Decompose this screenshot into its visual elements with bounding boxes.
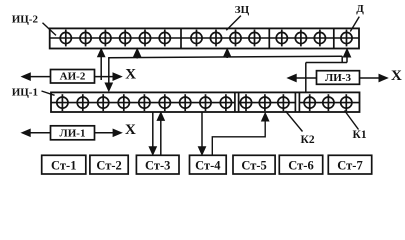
track section box ИЦ-1 bbox=[51, 92, 360, 112]
wheel sensor top section1 #3 bbox=[100, 30, 111, 47]
svg-text:Ст-4: Ст-4 bbox=[195, 158, 221, 172]
divider joint top box 3 bbox=[333, 28, 335, 48]
wire ЛИ-1 right output to X bbox=[95, 132, 114, 134]
wheel sensor middle segA #1 bbox=[57, 94, 68, 111]
leader line К1 bbox=[345, 111, 359, 130]
rail center line middle box segA bbox=[51, 102, 235, 104]
arrowhead up into top box x101 bbox=[98, 49, 105, 57]
wheel sensor middle segB #1 bbox=[240, 94, 251, 111]
wheel sensor top section2 #3 bbox=[230, 30, 241, 47]
wheel sensor middle segA #3 bbox=[98, 94, 109, 111]
station block Ст-1 bbox=[42, 155, 86, 174]
wire vertical up into top box at x137 bbox=[136, 56, 138, 59]
wheel sensor middle segA #7 bbox=[180, 94, 191, 111]
rail center line middle box segC bbox=[299, 102, 359, 104]
block ЛИ-1 bbox=[51, 126, 95, 140]
arrowhead ЛИ-1 right X bbox=[113, 129, 122, 136]
wheel sensor middle segC #2 bbox=[323, 94, 334, 111]
block АИ-2 bbox=[51, 70, 95, 84]
arrowhead ЛИ-3 left bbox=[288, 74, 297, 81]
divider joint top box 2 bbox=[268, 28, 270, 48]
wheel sensor top section3 #3 bbox=[314, 30, 325, 47]
svg-text:Ст-2: Ст-2 bbox=[96, 158, 121, 172]
double insulated joint middle box right pair bbox=[295, 92, 299, 112]
wheel sensor top section1 #1 bbox=[60, 30, 71, 47]
svg-text:ИЦ-2: ИЦ-2 bbox=[12, 14, 39, 26]
svg-text:К1: К1 bbox=[353, 129, 367, 141]
svg-text:Ст-5: Ст-5 bbox=[241, 158, 266, 172]
svg-text:X: X bbox=[125, 66, 136, 82]
station block Ст-6 bbox=[279, 155, 322, 174]
label X near ЛИ-1 bbox=[125, 122, 136, 138]
label ЗЦ bbox=[235, 4, 250, 16]
svg-text:Ст-1: Ст-1 bbox=[51, 158, 76, 172]
wire ЛИ-3 right output to X bbox=[360, 77, 380, 79]
wheel sensor middle segB #2 bbox=[259, 94, 270, 111]
wire vertical jog at x342 bbox=[341, 56, 343, 62]
wire vertical down into middle box at x109 bbox=[108, 58, 110, 83]
svg-text:ЛИ-3: ЛИ-3 bbox=[325, 72, 351, 84]
wheel sensor middle segB #3 bbox=[278, 94, 289, 111]
wheel sensor middle segA #5 bbox=[139, 94, 150, 111]
wire vertical up into top box at x227 bbox=[226, 55, 228, 58]
wheel sensor middle segA #4 bbox=[118, 94, 129, 111]
svg-text:К2: К2 bbox=[301, 134, 315, 146]
station block Ст-4 bbox=[190, 155, 227, 174]
wheel sensor top section4 (Д) #1 bbox=[341, 30, 352, 47]
wheel sensor top section1 #2 bbox=[80, 30, 91, 47]
wheel sensor middle segC #1 bbox=[304, 94, 315, 111]
svg-text:ИЦ-1: ИЦ-1 bbox=[12, 86, 38, 98]
arrowhead ЛИ-1 left bbox=[22, 129, 31, 136]
arrowhead up into middle box from Ст-3 bbox=[157, 112, 164, 120]
svg-text:Д: Д bbox=[356, 3, 364, 15]
svg-text:Ст-3: Ст-3 bbox=[145, 158, 170, 172]
svg-text:Ст-6: Ст-6 bbox=[288, 158, 313, 172]
rail center line middle box segB bbox=[239, 102, 296, 104]
station block Ст-5 bbox=[233, 155, 275, 174]
wheel sensor top section1 #4 bbox=[120, 30, 131, 47]
wheel sensor top section3 #1 bbox=[276, 30, 287, 47]
arrowhead down into middle box x109 bbox=[105, 83, 112, 91]
wheel sensor top section2 #1 bbox=[191, 30, 202, 47]
wire vertical into top box at x101 bbox=[100, 57, 102, 81]
wheel sensor top section2 #2 bbox=[210, 30, 221, 47]
svg-text:Ст-7: Ст-7 bbox=[337, 158, 362, 172]
svg-text:АИ-2: АИ-2 bbox=[60, 71, 86, 83]
wire up from Ст-3 to middle box bbox=[160, 120, 162, 156]
svg-text:ЛИ-1: ЛИ-1 bbox=[60, 127, 86, 139]
wire vertical up into top box at x347 bbox=[346, 56, 348, 63]
arrowhead АИ-2 right X bbox=[113, 73, 122, 80]
wheel sensor middle segA #2 bbox=[77, 94, 88, 111]
wire АИ-2 left output bbox=[30, 76, 51, 78]
wire vertical down to middle box at x306 bbox=[305, 63, 307, 93]
rail center line top box bbox=[50, 37, 359, 39]
wheel sensor top section2 #4 bbox=[249, 30, 260, 47]
wheel sensor top section1 #6 bbox=[159, 30, 170, 47]
arrowhead down into Ст-3 bbox=[149, 147, 156, 155]
wheel sensor top section3 #2 bbox=[295, 30, 306, 47]
station block Ст-2 bbox=[90, 155, 128, 174]
leader line ЗЦ bbox=[226, 16, 241, 31]
wire path Ст-4 up to middle segB bbox=[212, 121, 265, 156]
arrowhead up into top box x137 bbox=[134, 49, 141, 57]
label X near АИ-2 bbox=[125, 66, 136, 82]
double insulated joint middle box left pair bbox=[235, 92, 239, 112]
label Д bbox=[356, 3, 364, 15]
wire horizontal bus y58 bbox=[108, 56, 342, 58]
arrowhead up into top box x227 bbox=[224, 49, 231, 57]
wire ЛИ-3 left output bbox=[296, 77, 317, 79]
track section box ИЦ-2 bbox=[50, 28, 359, 48]
svg-text:X: X bbox=[391, 68, 402, 84]
wire АИ-2 right output to X bbox=[95, 76, 114, 78]
arrowhead АИ-2 left bbox=[22, 73, 31, 80]
wire horizontal jog y62.5 bbox=[306, 62, 347, 64]
label ИЦ-2 bbox=[12, 14, 39, 26]
label ИЦ-1 bbox=[12, 86, 38, 98]
leader line ИЦ-2 bbox=[43, 23, 57, 36]
wheel sensor middle segA #9 bbox=[220, 94, 231, 111]
arrowhead ЛИ-3 right X bbox=[379, 74, 388, 81]
label К1 bbox=[353, 129, 367, 141]
station block Ст-3 bbox=[136, 155, 179, 174]
station block Ст-7 bbox=[328, 155, 371, 174]
wheel sensor middle segC #3 bbox=[341, 94, 352, 111]
wire ЛИ-1 left output bbox=[30, 132, 51, 134]
wire down from middle box to Ст-4 bbox=[201, 112, 203, 147]
label К2 bbox=[301, 134, 315, 146]
arrowhead down into Ст-4 bbox=[198, 147, 205, 155]
wire down from middle box to Ст-3 bbox=[152, 112, 154, 147]
svg-text:X: X bbox=[125, 122, 136, 138]
wheel sensor middle segA #8 bbox=[200, 94, 211, 111]
svg-text:ЗЦ: ЗЦ bbox=[235, 4, 250, 16]
leader line ИЦ-1 bbox=[42, 91, 55, 95]
block ЛИ-3 bbox=[317, 71, 360, 85]
wheel sensor top section1 #5 bbox=[139, 30, 150, 47]
leader line Д bbox=[350, 17, 359, 32]
leader line К2 bbox=[286, 111, 303, 132]
label X near ЛИ-3 bbox=[391, 68, 402, 84]
arrowhead up into middle segB bbox=[262, 113, 269, 121]
divider joint top box 1 bbox=[180, 28, 182, 48]
wheel sensor middle segA #6 bbox=[159, 94, 170, 111]
arrowhead up into top box x347 bbox=[343, 49, 350, 57]
